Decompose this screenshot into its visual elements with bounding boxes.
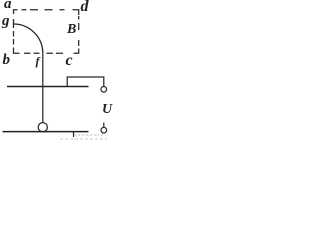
label g <box>2 14 10 29</box>
field region bottom-right corner c <box>74 49 79 54</box>
label B <box>67 23 76 37</box>
ball on bottom plate <box>38 123 47 132</box>
wire from top plate to source terminal <box>67 77 104 87</box>
top capacitor plate <box>7 86 89 88</box>
bottom terminal stub <box>103 123 105 128</box>
label f <box>36 55 40 67</box>
bottom capacitor plate <box>3 131 89 133</box>
field region bottom edge (dashed b-c) <box>24 52 63 54</box>
label b <box>3 53 11 68</box>
quarter-circle ramp g-f <box>14 24 43 53</box>
faint watermark row <box>60 134 107 140</box>
label a <box>4 0 12 12</box>
field region right edge (dashed d-c) <box>78 16 80 46</box>
label c <box>66 53 73 69</box>
field region bottom-left corner b <box>14 48 20 54</box>
ground stem under bottom plate <box>73 132 75 137</box>
field region top edge (dashed a-d) <box>14 10 18 14</box>
field region top-right corner d <box>73 10 79 15</box>
bottom terminal circle of U <box>101 127 107 133</box>
label U <box>102 103 112 117</box>
string from f down to ball <box>42 53 44 122</box>
field region left edge (dashed a-b) <box>13 31 15 45</box>
point g tick on left edge <box>13 19 15 28</box>
top terminal circle of U <box>101 87 107 93</box>
label d <box>81 0 89 15</box>
